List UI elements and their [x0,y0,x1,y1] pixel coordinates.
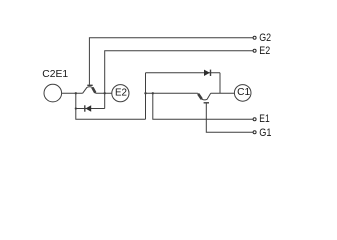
svg-text:E2: E2 [259,45,270,57]
pin G2 [253,36,256,39]
node FWD2 anode junction [75,107,77,109]
svg-text:E2: E2 [115,88,127,99]
svg-text:E1: E1 [259,113,269,125]
wire FWD1 branch [146,72,221,74]
node Q1 emitter junction [144,92,146,94]
node E1 kelvin junction [152,92,154,94]
wire Q1 collector to C1 [211,92,235,94]
pin G1 [253,131,256,134]
terminal C1 [234,85,251,102]
node C2E1 junction [75,92,77,94]
svg-text:C1: C1 [237,87,250,98]
svg-text:G1: G1 [259,127,271,139]
svg-text:C2E1: C2E1 [42,68,68,80]
terminal E2 [112,85,129,102]
wire Q2 emitter to E2 terminal [96,92,112,94]
diode FWD2 [85,105,91,111]
wire riser E1 to FWD1 anode [145,73,147,119]
wire FWD2 branch [76,108,105,110]
wire C2E1 to E1 rail left [76,93,146,119]
wire gate G2 [89,38,253,85]
IGBT Q1 [198,93,211,103]
wire Q1 emitter [146,92,198,94]
wire C2E1 terminal to Q2 [62,92,83,94]
pin E2 [253,49,256,52]
pin E1 [253,118,256,121]
node Q2 emitter junction [104,92,106,94]
IGBT Q2 [83,85,96,93]
wire gate G1 [206,103,253,132]
wire E1 kelvin rail [153,93,253,119]
wire emitter sense E2 [105,51,253,109]
wire FWD1 cathode drop [219,73,221,94]
diode FWD1 [204,70,211,76]
svg-text:G2: G2 [259,32,271,44]
terminal C2E1 [44,84,62,102]
